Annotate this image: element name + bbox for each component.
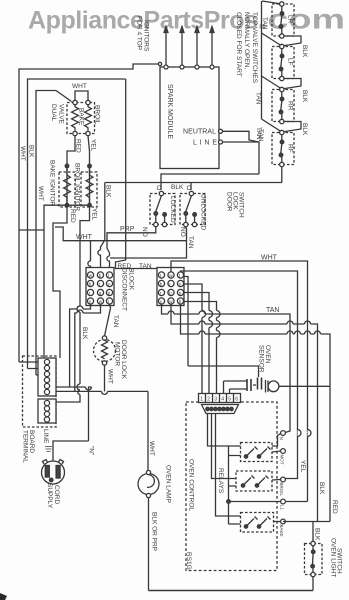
svg-text:BLK: BLK (314, 528, 321, 541)
svg-text:YEL: YEL (90, 139, 97, 152)
wire TAN drop from door lock (91, 227, 187, 261)
svg-text:BLK: BLK (81, 327, 88, 340)
svg-text:N: N (279, 437, 284, 440)
svg-text:BAKE IGNITOR: BAKE IGNITOR (49, 160, 56, 206)
svg-text:BLK: BLK (301, 123, 308, 136)
wire block2 right side outputs (184, 277, 217, 394)
wire TAN bus to valve switches (262, 1, 282, 132)
node broil ignitor bottom (88, 203, 92, 207)
label OVEN LIGHT SWITCH (330, 538, 343, 577)
wire YEL run y271 (181, 271, 298, 479)
wire BLK run y182.5 (105, 183, 282, 191)
svg-text:WHT: WHT (148, 441, 155, 456)
wire sensor bulb to RED line (279, 385, 330, 387)
door lock motor M1 (94, 336, 116, 365)
svg-text:BROIL: BROIL (279, 483, 284, 497)
wire outer left bus (WHT) (19, 64, 160, 362)
terminal BAKE (281, 519, 286, 524)
svg-text:OVEN LIGHT: OVEN LIGHT (330, 538, 337, 577)
svg-text:"N": "N" (88, 446, 95, 456)
wire LINE lead (223, 142, 260, 174)
wire run y334 (181, 304, 331, 521)
wire PRP run (107, 227, 156, 256)
wire run y324 (171, 304, 318, 521)
svg-text:LR: LR (287, 15, 294, 24)
relay K1 (241, 443, 273, 462)
node L1 junction (227, 500, 231, 504)
oven light switch (305, 541, 323, 576)
svg-text:RED: RED (69, 209, 76, 223)
wire WHT center run (55, 227, 187, 241)
wire TAN block1 to door lock motor (105, 304, 111, 336)
svg-text:L1: L1 (280, 505, 285, 511)
dual valve (bake/broil coils) (67, 91, 95, 136)
label OVEN SENSOR (258, 345, 272, 373)
svg-text:SPARK MODULE: SPARK MODULE (166, 84, 173, 139)
svg-text:MOT: MOT (280, 455, 285, 465)
svg-text:LINE: LINE (42, 429, 49, 444)
svg-text:RR: RR (287, 101, 294, 111)
svg-text:LOCK: LOCK (232, 192, 239, 210)
svg-text:WHT: WHT (261, 255, 278, 262)
node bake ignitor top (65, 164, 69, 168)
switch LF (left front) (272, 44, 294, 80)
label DUAL VALVE (50, 104, 65, 125)
svg-text:DISCONNECT: DISCONNECT (121, 268, 128, 311)
svg-text:SUPPLY: SUPPLY (46, 483, 53, 509)
svg-text:OVEN LAMP: OVEN LAMP (165, 465, 172, 503)
scan artifact bottom-left corner (0, 593, 7, 600)
svg-text:BLK: BLK (105, 185, 112, 198)
label DOOR LOCK SWITCH (226, 192, 245, 218)
svg-text:NEUTRAL: NEUTRAL (183, 129, 216, 136)
svg-text:YEL: YEL (91, 208, 98, 221)
svg-text:BLK OR PRP: BLK OR PRP (151, 512, 158, 551)
svg-text:RS1G: RS1G (185, 552, 192, 570)
door lock switch (150, 191, 205, 226)
svg-text:YEL: YEL (299, 460, 306, 473)
svg-text:RED: RED (118, 263, 132, 270)
svg-text:WHT: WHT (19, 146, 26, 161)
svg-text:6: 6 (235, 396, 238, 402)
wire feed into disconnect block 2 (116, 79, 158, 269)
hops on vertical drops x202 x209 x216.5 (202, 311, 220, 338)
svg-text:NO: NO (179, 227, 186, 237)
svg-text:C: C (187, 185, 192, 192)
wire RF bottom to BLK run (281, 167, 283, 183)
oven sensor connector caps (247, 378, 262, 392)
terminal MOT (281, 449, 286, 454)
svg-text:LOCKED: LOCKED (169, 196, 176, 223)
wire YEL drop (BLK) (56, 205, 90, 402)
wire sensor cap links (224, 381, 257, 394)
wire BAKE to oven light switch (283, 522, 330, 544)
svg-text:MOTOR: MOTOR (114, 342, 121, 366)
svg-text:TERMINAL: TERMINAL (22, 430, 29, 463)
terminal board (23, 356, 57, 427)
svg-text:1: 1 (200, 396, 203, 402)
wire sensor feed y366 (188, 366, 259, 377)
hop y309 over x80 (77, 306, 83, 309)
bake ignitor coil (59, 166, 75, 207)
wire third bus (WHT) to dual valve (36, 91, 72, 376)
svg-text:BLOCK: BLOCK (128, 268, 135, 291)
wire block1 bottom col2 (75, 304, 101, 391)
node broil ignitor top (88, 164, 92, 168)
label DOOR LOCK MOTOR (114, 340, 128, 380)
svg-text:PRP: PRP (120, 226, 135, 233)
node spark feed (158, 62, 161, 65)
wire LF to RR (BLK) (282, 79, 301, 90)
wire K3 to BAKE terminal (274, 521, 281, 523)
svg-text:L I N E: L I N E (193, 140, 217, 147)
svg-text:SWITCH: SWITCH (336, 548, 343, 574)
svg-text:WHT: WHT (72, 83, 87, 90)
wire NEUTRAL lead (223, 131, 260, 142)
svg-text:TAN: TAN (255, 92, 262, 105)
svg-text:WHT: WHT (37, 186, 44, 201)
wire ignitor leads with arrows (164, 27, 214, 66)
label TOP VALVE SWITCHES NORMALLY OPEN, CLOSED FOR START (235, 12, 258, 84)
svg-text:RELAYS: RELAYS (217, 468, 224, 494)
svg-text:BLK: BLK (301, 90, 308, 103)
svg-text:IGNITORS: IGNITORS (143, 20, 150, 52)
svg-text:3: 3 (214, 396, 217, 402)
wire bottom bus (149, 590, 314, 592)
wire ignitor common to left bus (19, 205, 90, 358)
oven control connector strip (199, 394, 241, 403)
svg-text:FOR 4 TOP: FOR 4 TOP (136, 16, 143, 50)
wire L1 run (229, 501, 308, 503)
wire supply cord lead (53, 441, 89, 461)
spark module U1 (160, 65, 223, 169)
hops YEL/WHT verticals over N wire (298, 430, 312, 437)
wire lamp bottom (148, 498, 150, 591)
wire second bus (BLK) (28, 79, 126, 369)
svg-text:SWITCH: SWITCH (238, 192, 245, 218)
wire lamp top WHT (147, 391, 149, 473)
svg-text:BAKE: BAKE (279, 525, 284, 537)
switch RF (right front) (272, 130, 294, 166)
wire relay coil bus (229, 446, 241, 524)
svg-text:CLOSED FOR START: CLOSED FOR START (235, 12, 242, 77)
svg-text:.com: .com (257, 4, 345, 35)
svg-text:NO: NO (141, 227, 148, 237)
svg-text:BLK: BLK (318, 482, 325, 495)
terminal BROIL (281, 477, 286, 482)
svg-text:TAN: TAN (266, 307, 279, 314)
svg-text:2: 2 (207, 396, 210, 402)
svg-text:TAN: TAN (112, 315, 119, 328)
svg-text:RF: RF (287, 144, 294, 153)
svg-text:BROIL: BROIL (94, 105, 101, 125)
wire TAN run y314 (162, 304, 291, 433)
wire K1 to MOT terminal (272, 451, 281, 452)
hop y387 over x88.5? none; hop y391.4 over x104.5 (102, 391, 108, 394)
broil ignitor coil (81, 166, 97, 207)
hop x80 over y387/y391 (77, 384, 80, 390)
svg-text:RED: RED (75, 139, 82, 153)
wire K2 to BROIL terminal (272, 479, 281, 482)
oven lamp LP1 (138, 470, 159, 497)
wire strip1 right to N node (56, 387, 148, 441)
svg-text:SENSOR: SENSOR (258, 345, 265, 373)
wire light switch bottom (312, 577, 314, 591)
wire block1 bottom col1 to terminal board (70, 304, 91, 387)
label SUPPLY CORD (46, 483, 60, 509)
wire BLK drop x104.8 (101, 183, 105, 251)
wire YEL valve to broil ignitor (88, 136, 90, 203)
svg-text:NORMALLY OPEN,: NORMALLY OPEN, (243, 12, 250, 69)
svg-text:WHT: WHT (76, 234, 93, 241)
wire LR to LF (BLK) (282, 36, 301, 46)
svg-text:TAN: TAN (257, 129, 264, 142)
label TERMINAL BOARD (22, 430, 36, 463)
disconnect block 1 (86, 268, 114, 306)
relay K3 (241, 513, 274, 533)
connector wedge with pins (202, 405, 239, 414)
svg-text:4: 4 (221, 396, 224, 402)
svg-text:WHT: WHT (107, 369, 114, 384)
node bake ignitor bottom (65, 203, 69, 207)
svg-text:BAKE: BAKE (78, 108, 85, 126)
disconnect block 2 (157, 268, 184, 306)
wire WHT run y261 (171, 261, 308, 502)
svg-text:C: C (157, 185, 162, 192)
label C / BLK / C (157, 184, 192, 192)
svg-text:TOP VALVE SWITCHES: TOP VALVE SWITCHES (251, 12, 258, 84)
svg-text:BLK: BLK (171, 184, 184, 191)
svg-text:TAN: TAN (139, 263, 152, 270)
wire relay K1 to N terminal (272, 433, 281, 446)
wire motor bottom WHT (104, 365, 106, 391)
svg-text:BROIL IGNITOR: BROIL IGNITOR (74, 163, 81, 211)
svg-text:RED: RED (331, 500, 338, 514)
wire RED drop to terminal board (53, 205, 67, 358)
svg-text:5: 5 (228, 396, 231, 402)
label FOR 4 TOP IGNITORS (136, 16, 150, 52)
label DISCONNECT BLOCK (121, 268, 135, 311)
terminal N (281, 431, 286, 436)
oven control box (dashed) (186, 402, 277, 571)
svg-text:UNLOCKED: UNLOCKED (200, 194, 207, 230)
wire feeds into disconnect block 1 (hop squiggles) (88, 250, 110, 268)
wire RR to RF (BLK) (282, 122, 301, 133)
relay K2 (236, 471, 272, 491)
switch RR (right rear) (272, 87, 294, 123)
svg-text:TAN: TAN (261, 17, 268, 30)
svg-text:LF: LF (287, 58, 294, 66)
hop x80 over y309 (77, 306, 80, 312)
svg-text:DOOR: DOOR (226, 192, 233, 212)
oven sensor bulb (266, 380, 279, 393)
svg-text:VALVE: VALVE (58, 104, 65, 125)
wire RED valve to bake ignitor (67, 136, 75, 203)
svg-text:BLK: BLK (301, 45, 308, 58)
svg-text:OVEN CONTROL: OVEN CONTROL (188, 459, 195, 511)
svg-text:CORD: CORD (53, 485, 60, 504)
switch LR (left rear) (272, 2, 294, 38)
strip feed wires (19, 362, 40, 375)
supply cord plug P1 (42, 460, 65, 485)
wire relay feeds (208, 414, 241, 517)
svg-text:TAN: TAN (187, 236, 194, 249)
wire neutral run y174 (161, 174, 259, 190)
terminal L1 (281, 499, 286, 504)
svg-text:DUAL: DUAL (50, 104, 57, 122)
svg-text:BOARD: BOARD (28, 430, 35, 453)
svg-text:BLK: BLK (28, 145, 35, 158)
